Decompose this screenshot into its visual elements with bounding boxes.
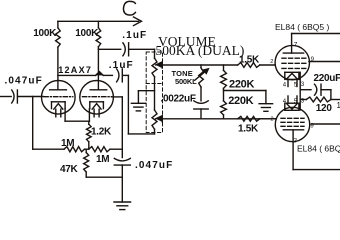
svg-text:220K: 220K bbox=[229, 79, 254, 91]
svg-text:3: 3 bbox=[301, 82, 305, 88]
svg-text:220K: 220K bbox=[228, 95, 253, 107]
svg-text:220uF: 220uF bbox=[314, 73, 340, 84]
svg-text:12AX7: 12AX7 bbox=[58, 65, 92, 75]
svg-text:500KL: 500KL bbox=[175, 77, 197, 86]
svg-text:.0022uF: .0022uF bbox=[161, 94, 196, 105]
svg-text:.047uF: .047uF bbox=[5, 75, 43, 86]
svg-text:.1uF: .1uF bbox=[122, 30, 147, 41]
svg-text:EL84 ( 6BQ5 ): EL84 ( 6BQ5 ) bbox=[297, 143, 340, 153]
svg-text:100K: 100K bbox=[33, 28, 57, 39]
svg-text:4: 4 bbox=[283, 82, 287, 88]
svg-text:.047uF: .047uF bbox=[135, 160, 173, 171]
svg-text:2: 2 bbox=[270, 59, 273, 65]
svg-text:1M: 1M bbox=[96, 154, 109, 165]
svg-text:EL84 ( 6BQ5 ): EL84 ( 6BQ5 ) bbox=[275, 22, 330, 32]
svg-text:120: 120 bbox=[316, 103, 333, 114]
svg-text:1: 1 bbox=[337, 101, 340, 110]
svg-text:47K: 47K bbox=[60, 164, 79, 175]
svg-text:1.5K: 1.5K bbox=[238, 124, 259, 135]
svg-text:500KA (DUAL): 500KA (DUAL) bbox=[156, 43, 245, 58]
svg-text:2: 2 bbox=[271, 116, 274, 122]
svg-text:7: 7 bbox=[294, 41, 298, 48]
svg-text:1.2K: 1.2K bbox=[91, 127, 112, 138]
svg-text:.1uF: .1uF bbox=[109, 60, 134, 71]
